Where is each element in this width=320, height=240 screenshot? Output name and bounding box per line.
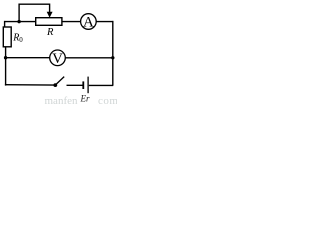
svg-text:Er: Er <box>80 94 90 104</box>
svg-text:A: A <box>83 14 94 30</box>
wire left edge lower <box>5 47 7 86</box>
wire top-left segment <box>4 21 35 23</box>
slider tap wire (riser, top run, drop) <box>19 4 49 21</box>
svg-text:manfen: manfen <box>45 95 78 105</box>
rheostat R box <box>36 18 62 26</box>
ammeter A circle <box>81 14 97 30</box>
resistor R0 box <box>3 27 11 47</box>
wire voltmeter branch right <box>65 57 112 59</box>
wire left edge upper stub <box>4 21 6 27</box>
switch S lever <box>55 77 64 86</box>
junction dot at slider tap <box>17 20 20 23</box>
junction dot left voltmeter node <box>4 56 7 59</box>
svg-text:R: R <box>46 27 54 38</box>
wire bottom left to switch <box>5 84 55 86</box>
battery short plate <box>82 81 84 89</box>
wire right edge <box>112 21 114 86</box>
wire switch to battery <box>67 84 83 86</box>
svg-text:R0: R0 <box>12 33 23 45</box>
wire battery to bottom-right corner <box>89 84 113 86</box>
battery long plate <box>87 77 89 94</box>
wire rheostat to ammeter <box>62 21 81 23</box>
switch pivot dot <box>53 83 57 87</box>
junction dot right voltmeter node <box>111 56 114 59</box>
voltmeter V circle <box>50 50 66 66</box>
svg-text:com: com <box>98 95 117 105</box>
wire ammeter to top-right corner <box>96 21 113 23</box>
slider arrowhead <box>47 12 53 18</box>
svg-text:V: V <box>52 51 63 67</box>
wire voltmeter branch left <box>5 57 50 59</box>
